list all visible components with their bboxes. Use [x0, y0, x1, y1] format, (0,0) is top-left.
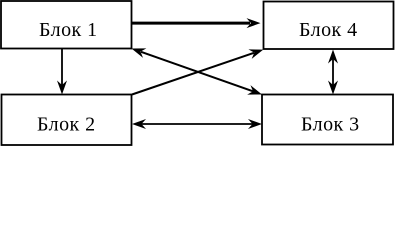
svg-text:Блок 4: Блок 4 [299, 19, 358, 41]
block Блок 3 [262, 95, 393, 145]
arrow Блок 1 → Блок 4 (thick horizontal, head at right) [132, 18, 261, 28]
arrow Блок 4 ↔ Блок 3 (vertical double) [328, 50, 338, 95]
block Блок 1 [1, 1, 132, 49]
block Блок 2 [2, 95, 132, 146]
block Блок 4 [264, 2, 394, 50]
arrow Блок 2 → Блок 4 (diagonal up-right, head at Блок 4) [132, 45, 265, 95]
svg-text:Блок 2: Блок 2 [37, 114, 96, 136]
svg-text:Блок 1: Блок 1 [39, 19, 98, 41]
arrow Блок 1 ↔ Блок 3 (diagonal double) [130, 44, 264, 99]
svg-text:Блок 3: Блок 3 [301, 114, 360, 136]
arrow Блок 2 ↔ Блок 3 (horizontal double) [132, 119, 262, 129]
arrow Блок 1 → Блок 2 (vertical, head down) [57, 49, 67, 95]
